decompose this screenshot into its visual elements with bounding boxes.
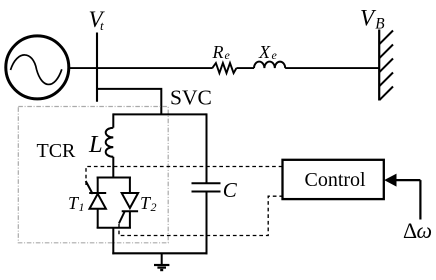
label Re [212,42,231,62]
wire bus tap to SVC [97,89,161,115]
wire capacitor down [206,192,208,255]
wire bus to resistor [97,67,213,69]
node wire: SVC top horizontal [113,113,206,115]
capacitor C [192,183,221,191]
label Xe [258,42,278,62]
bus bar Vt [96,33,98,102]
wire inductor to infinite bus [285,67,379,69]
svg-text:SVC: SVC [170,86,212,110]
svg-text:R: R [212,42,224,62]
svg-text:TCR: TCR [37,140,77,162]
svg-text:C: C [223,178,238,202]
wire thyristor loop top [97,177,131,179]
wire inductor to thyristor loop [112,157,114,179]
wire into inductor L [112,113,114,127]
svg-text:L: L [88,131,103,158]
wire thyristor loop bottom [97,227,131,229]
svg-text:t: t [100,18,104,33]
ground [154,253,169,270]
dashed gate line T1 to Control [86,167,283,186]
label delta omega [403,218,432,243]
thyristor T1 [86,177,107,229]
svg-text:Control: Control [305,169,367,191]
inductor L [106,128,114,157]
infinite bus wall [379,30,393,101]
svg-text:e: e [272,48,278,62]
svg-text:X: X [258,42,271,62]
label T2 [140,193,157,214]
inductor Xe [254,62,285,69]
label T1 [68,193,85,214]
TCR dash-dot box [18,107,168,243]
control block [283,160,384,199]
svg-text:2: 2 [151,200,157,214]
svg-text:1: 1 [79,200,85,214]
thyristor T2 [119,177,138,229]
wire loop to ground bus [112,228,114,255]
svg-text:ω: ω [417,218,433,243]
wire generator to bus [68,67,97,69]
arrow input wire [419,180,421,219]
svg-text:e: e [225,48,231,62]
arrowhead [385,174,396,185]
label VB [360,6,385,33]
generator G1 circle [6,36,69,99]
wire to capacitor [206,113,208,183]
svg-text:Δ: Δ [403,218,417,243]
label Vt [89,7,106,33]
dashed gate line T2 to Control [119,196,283,235]
generator G1 sine wave [11,55,62,85]
resistor Re [212,63,236,73]
wire resistor to inductor [236,67,254,69]
wire bottom horizontal [112,252,207,254]
